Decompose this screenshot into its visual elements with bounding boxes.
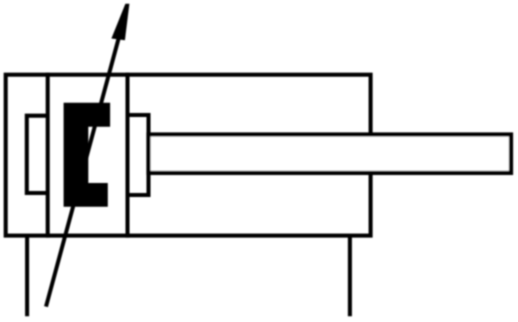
piston left face (vertical line) xyxy=(46,73,50,238)
adjustability arrow shaft xyxy=(46,33,120,306)
cylinder barrel (body rectangle) xyxy=(6,75,371,236)
left port line xyxy=(25,236,29,317)
piston rod (white-filled, erases barrel edge crossing) xyxy=(149,135,512,173)
cushioning element (filled C-shape) xyxy=(64,103,111,207)
right cushion bracket xyxy=(128,115,149,195)
adjustability arrow head xyxy=(111,4,129,41)
right port line xyxy=(348,236,352,317)
left cushion bracket xyxy=(27,116,48,193)
piston right face (vertical line) xyxy=(125,73,129,238)
